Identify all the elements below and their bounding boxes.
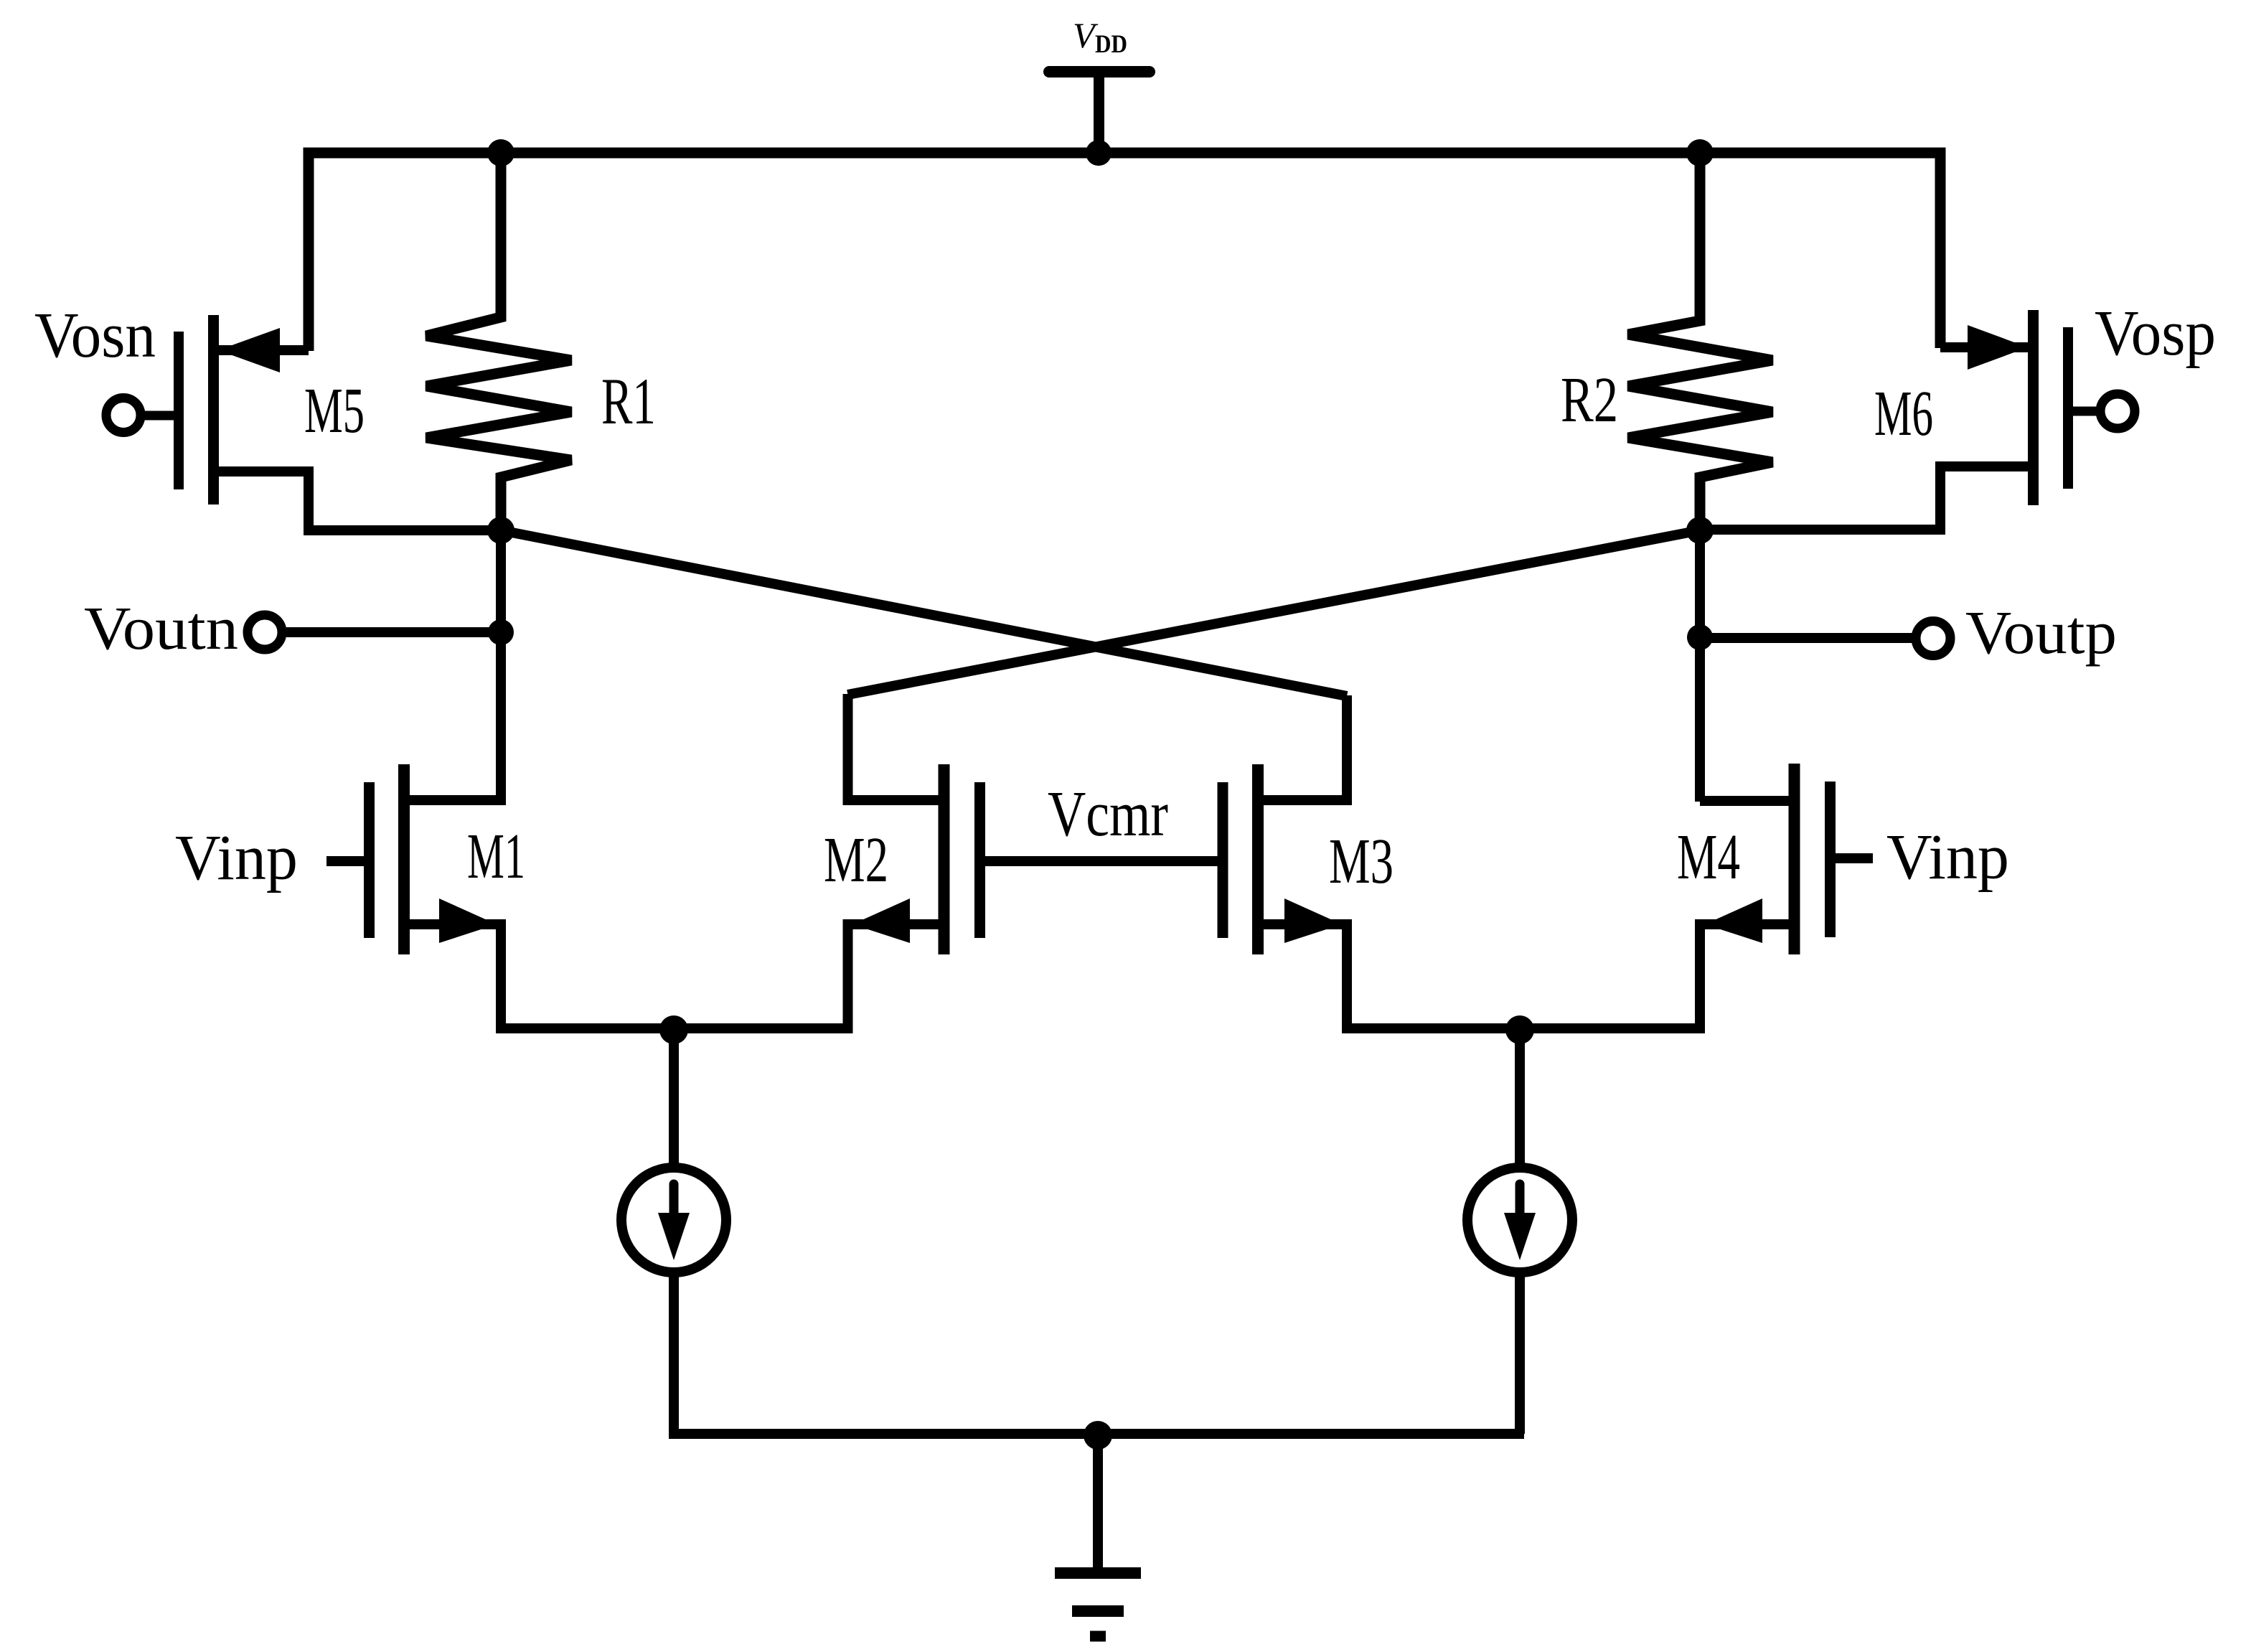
svg-text:Vosn: Vosn [34,300,156,371]
svg-text:M3: M3 [1329,826,1394,897]
svg-text:Vcmr: Vcmr [1048,779,1168,850]
svg-text:DD: DD [1095,29,1127,58]
svg-text:Vinp: Vinp [175,822,298,893]
svg-text:M5: M5 [304,375,365,446]
svg-text:R1: R1 [601,365,656,438]
svg-text:R2: R2 [1561,365,1618,436]
svg-text:Vosp: Vosp [2095,298,2216,369]
svg-text:Vinp: Vinp [1886,822,2009,893]
svg-text:M2: M2 [824,825,888,896]
svg-text:Voutn: Voutn [84,593,238,662]
svg-text:Voutp: Voutp [1965,598,2117,667]
svg-text:M6: M6 [1874,378,1933,449]
svg-text:M4: M4 [1677,822,1740,893]
svg-text:M1: M1 [467,821,525,892]
